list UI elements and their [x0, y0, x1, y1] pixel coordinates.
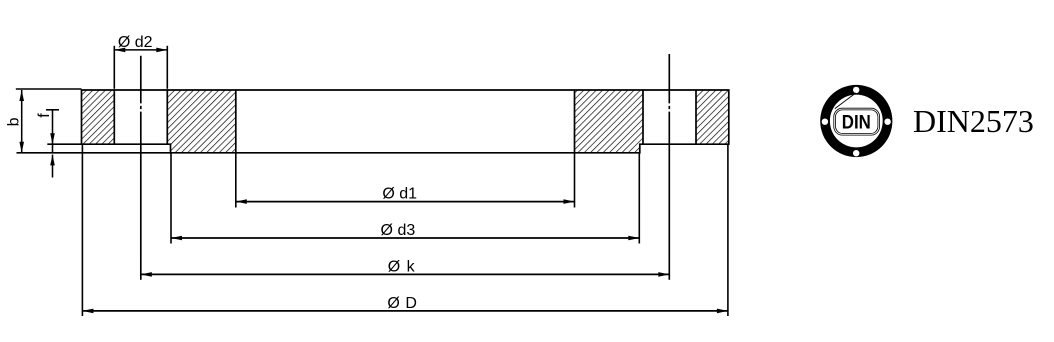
dimension D: left arrow [82, 309, 93, 314]
svg-text:b: b [5, 117, 22, 126]
right bolt hole left edge line [642, 90, 644, 144]
dimension k: right arrow [658, 272, 669, 277]
dimension d3: left arrow [171, 236, 182, 241]
dimension D: extension line right [727, 145, 729, 316]
dimension D: right arrow [717, 309, 728, 314]
dimension d3: extension line left [170, 154, 172, 244]
hatched section left inner (between bolt hole and bore, incl. raised face) [167, 90, 236, 153]
DIN logo: bottom bolt hole [853, 150, 859, 156]
right bolt hole right edge line [695, 90, 697, 144]
dimension b: bottom arrow [19, 142, 24, 153]
dimension d3: extension line right [638, 154, 640, 244]
dimension b: dimension line [21, 90, 23, 153]
dimension D: dimension line [82, 310, 728, 312]
dimension d2: extension line right [166, 46, 168, 89]
dimension d2: extension line left [113, 46, 115, 89]
dimension k: left arrow [141, 272, 152, 277]
dimension b: top arrow [19, 90, 24, 101]
DIN logo: left bolt hole [822, 119, 828, 125]
left bolt centerline (dash-dot) [140, 56, 142, 280]
DIN logo: outer black ring [820, 85, 892, 157]
dimension f: extension line (plate bottom extended left) [47, 143, 81, 145]
dimension d2: dimension line [114, 49, 167, 51]
dimension D: extension line left [81, 145, 83, 316]
svg-text:k: k [407, 258, 416, 275]
dimension d3: dimension line [171, 237, 639, 239]
svg-text:D: D [405, 295, 417, 312]
dimension d1: dimension line [236, 201, 575, 203]
DIN logo: top bolt hole [853, 87, 859, 93]
hatched section right inner (between bore and bolt hole, incl. raised face) [575, 90, 644, 153]
svg-text:f: f [36, 113, 53, 118]
svg-text:DIN2573: DIN2573 [913, 103, 1034, 139]
DIN logo: diagonal leader line [835, 93, 856, 109]
dimension k: dimension line [141, 273, 670, 275]
svg-text:Ø d3: Ø d3 [381, 222, 416, 239]
dimension d2: left arrow [114, 48, 125, 53]
svg-text:Ø: Ø [388, 258, 400, 275]
dimension d1: extension line right [574, 154, 576, 208]
dimension d1: extension line left [235, 154, 237, 208]
bore right edge line [574, 90, 576, 153]
dimension d1: right arrow [564, 199, 575, 204]
bolt hole right edge line [166, 90, 168, 144]
right bolt centerline (dash-dot) [668, 54, 670, 280]
svg-text:DIN: DIN [842, 110, 871, 133]
dimension d2: right arrow [156, 48, 167, 53]
dimension b: bottom extension line (also raised face bottom extension) [17, 152, 171, 154]
flange outline [82, 90, 729, 153]
hatched section right outer (between bolt hole and OD) [696, 90, 729, 144]
DIN logo: label plate outer border [834, 108, 880, 135]
bolt hole left edge line [113, 90, 115, 144]
DIN logo: label plate inner border [836, 110, 878, 133]
dimension f: upper leader with tick [46, 109, 59, 111]
hatched section left outer (between OD and bolt hole) [82, 90, 115, 144]
dimension d3: right arrow [628, 236, 639, 241]
svg-text:Ø: Ø [387, 295, 399, 312]
svg-text:Ø d1: Ø d1 [382, 186, 417, 203]
svg-text:Ø d2: Ø d2 [118, 34, 153, 51]
dimension b: top extension line [16, 88, 82, 90]
dimension d1: left arrow [236, 199, 247, 204]
DIN logo: right bolt hole [884, 119, 890, 125]
dimension f: lower leader [52, 155, 54, 178]
dimension f: lower arrow (points up to face bottom) [50, 154, 55, 165]
DIN logo: inner white circle [830, 95, 883, 148]
bore left edge line [235, 90, 237, 153]
dimension f: upper arrow (points down to plate bottom) [50, 133, 55, 144]
